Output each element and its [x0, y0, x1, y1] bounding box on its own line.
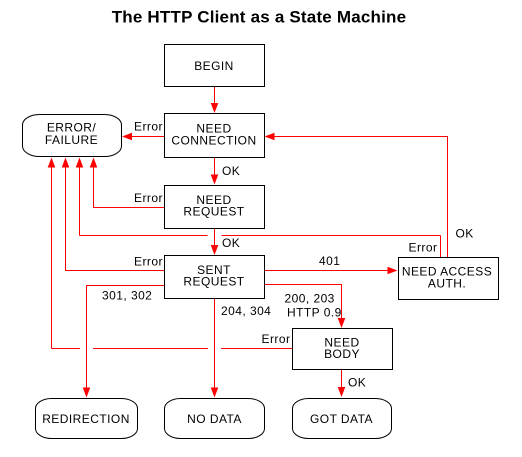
svg-text:Error: Error [409, 241, 438, 255]
arrowhead into ERROR/FAILURE right [122, 133, 132, 141]
svg-text:OK: OK [456, 227, 474, 241]
svg-text:AUTH.: AUTH. [428, 277, 466, 291]
svg-text:OK: OK [348, 376, 366, 390]
state box BEGIN [165, 45, 265, 87]
wire NEED ACCESS AUTH OK to NEED CONNECTION [273, 137, 448, 258]
svg-text:GOT DATA: GOT DATA [310, 412, 373, 426]
wire NEED REQUEST error to ERROR/FAILURE [94, 166, 165, 208]
state box NEED ACCESS AUTH [399, 258, 499, 300]
svg-text:BEGIN: BEGIN [194, 59, 234, 73]
wire NEED CONNECTION to ERROR/FAILURE [131, 136, 164, 138]
svg-text:204, 304: 204, 304 [221, 304, 271, 318]
arrowhead into GOT DATA top [338, 387, 346, 397]
terminal ERROR/FAILURE [23, 115, 122, 157]
svg-text:REQUEST: REQUEST [183, 205, 244, 219]
arrowhead into SENT REQUEST top [211, 245, 219, 255]
state box SENT REQUEST [165, 256, 265, 299]
wire SENT REQUEST error to ERROR/FAILURE [66, 166, 165, 271]
svg-text:OK: OK [222, 164, 240, 178]
wire SENT REQUEST 204,304 to NO DATA [214, 299, 216, 389]
terminal NO DATA [165, 399, 265, 439]
state box NEED BODY [293, 329, 393, 370]
wire BEGIN to NEED CONNECTION [214, 87, 216, 105]
arrowhead up into ERROR/FAILURE bottom from SENT REQUEST [62, 158, 70, 168]
wire SENT REQUEST 401 to NEED ACCESS AUTH [264, 270, 389, 272]
wire NEED REQUEST to SENT REQUEST [214, 229, 216, 246]
svg-text:Error: Error [134, 120, 163, 134]
svg-text:HTTP 0.9: HTTP 0.9 [287, 306, 342, 320]
svg-text:The HTTP Client as a State Mac: The HTTP Client as a State Machine [112, 8, 407, 27]
svg-text:200, 203: 200, 203 [285, 292, 335, 306]
terminal REDIRECTION [36, 399, 138, 439]
svg-text:Error: Error [134, 191, 163, 205]
state box NEED CONNECTION [165, 114, 265, 158]
svg-text:FAILURE: FAILURE [45, 133, 98, 147]
svg-text:NO DATA: NO DATA [187, 412, 242, 426]
svg-text:Error: Error [134, 255, 163, 269]
svg-text:BODY: BODY [324, 347, 360, 361]
svg-text:401: 401 [319, 254, 340, 268]
arrowhead up into ERROR/FAILURE bottom from NEED REQUEST [90, 158, 98, 168]
svg-text:REDIRECTION: REDIRECTION [42, 412, 130, 426]
svg-text:OK: OK [222, 236, 240, 250]
arrowhead up into ERROR/FAILURE bottom from NEED BODY [48, 158, 56, 168]
state box NEED REQUEST [165, 186, 265, 229]
svg-text:301, 302: 301, 302 [102, 289, 152, 303]
svg-text:REQUEST: REQUEST [183, 275, 244, 289]
wire NEED BODY OK to GOT DATA [341, 370, 343, 389]
wire NEED BODY error to ERROR/FAILURE [52, 348, 81, 350]
arrowhead into NEED ACCESS AUTH left [388, 267, 398, 275]
arrowhead into NEED REQUEST top [211, 175, 219, 185]
arrowhead up into ERROR/FAILURE bottom from NEED ACCESS AUTH [76, 158, 84, 168]
terminal GOT DATA [293, 399, 392, 439]
svg-text:CONNECTION: CONNECTION [171, 134, 256, 148]
arrowhead into REDIRECTION top [83, 388, 91, 398]
svg-text:Error: Error [262, 332, 291, 346]
arrowhead into NEED CONNECTION top [211, 103, 219, 113]
arrowhead into NEED BODY top [338, 318, 346, 328]
arrowhead into NO DATA top [211, 388, 219, 398]
arrowhead into NEED CONNECTION right [265, 133, 275, 141]
wire NEED ACCESS AUTH error to ERROR/FAILURE [440, 236, 442, 258]
wire SENT REQUEST 200,203 to NEED BODY [264, 285, 342, 321]
wire NEED CONNECTION to NEED REQUEST [214, 158, 216, 176]
wire SENT REQUEST 301,302 to REDIRECTION [87, 286, 165, 390]
